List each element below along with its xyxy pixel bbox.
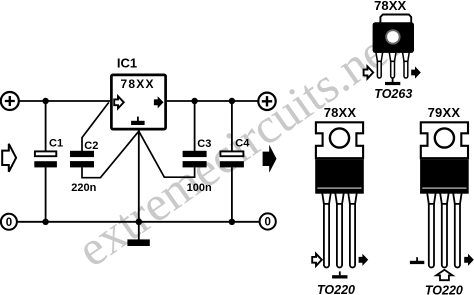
wire C3 top branch	[194, 101, 196, 151]
op-amp/regulator IC1 box	[111, 56, 165, 130]
wire C3 bottom to IC ground	[139, 131, 195, 177]
wire top rail (input side)	[19, 100, 110, 102]
TO263 leg 3	[403, 52, 410, 78]
TO220-78XX input pin arrow (hollow)	[312, 254, 322, 266]
wire bottom rail	[17, 221, 260, 223]
svg-text:78XX: 78XX	[374, 0, 406, 13]
TO263 leg 1	[376, 52, 383, 78]
svg-text:0: 0	[264, 217, 270, 229]
svg-text:0: 0	[6, 217, 12, 229]
TO263 ground pin symbol	[385, 78, 400, 85]
IC1 input pin arrow (hollow)	[114, 96, 124, 108]
wire top rail (output side)	[167, 100, 258, 102]
TO220-78XX leg 3	[348, 192, 357, 268]
svg-text:C1: C1	[49, 138, 63, 150]
capacitor C4	[220, 138, 250, 168]
TO220-78XX body groove line	[317, 187, 361, 189]
wire C4 branch	[231, 101, 233, 222]
wire IC ground down to rail and earth	[138, 130, 140, 240]
TO220-79XX leg 1	[427, 192, 436, 268]
svg-text:79XX: 79XX	[428, 105, 461, 120]
TO220-79XX input pin arrow (hollow, up)	[436, 270, 452, 280]
svg-text:C3: C3	[197, 138, 211, 150]
node C1 bottom junction	[42, 219, 48, 225]
TO220-78XX output pin arrow (solid)	[359, 254, 369, 266]
input arrow	[2, 144, 16, 172]
capacitor C2	[70, 140, 98, 194]
node C4 top junction	[229, 98, 235, 104]
TO220-79XX leg 3	[453, 192, 462, 268]
svg-text:78XX: 78XX	[324, 105, 357, 120]
TO263 input pin arrow (hollow)	[364, 66, 374, 78]
svg-text:TO220: TO220	[425, 284, 463, 295]
wire C1 top branch	[45, 101, 47, 151]
wire C1 bottom branch	[45, 167, 47, 221]
TO263 mounting hole ring	[385, 29, 400, 44]
terminal 0 (input, left)	[1, 214, 17, 230]
TO220-78XX leg 1	[322, 192, 331, 268]
TO220-78XX ground pin symbol	[332, 271, 347, 278]
TO263 output pin arrow (solid)	[411, 66, 421, 78]
TO220-78XX tab with notches	[316, 122, 363, 158]
terminal 0 (output, right)	[260, 213, 276, 229]
svg-text:C2: C2	[84, 140, 98, 152]
svg-text:TO220: TO220	[317, 283, 355, 295]
node C1 top junction	[42, 98, 48, 104]
capacitor C3	[183, 138, 212, 194]
TO220-78XX leg 2	[335, 192, 344, 268]
wire C2 bottom to IC ground	[82, 131, 139, 178]
TO263 tab	[380, 15, 411, 24]
node C4 bottom junction	[229, 219, 235, 225]
node C3 top junction	[191, 98, 197, 104]
TO220-79XX output pin arrow (solid)	[464, 254, 474, 266]
node ground rail junction	[136, 219, 143, 226]
ground symbol	[127, 239, 149, 246]
TO220-79XX leg 2	[440, 192, 449, 268]
TO220-78XX mounting hole	[330, 128, 349, 147]
IC1 output pin arrow (solid)	[154, 96, 164, 108]
TO220-79XX body	[420, 159, 469, 194]
TO263 body	[373, 22, 414, 53]
TO220-79XX body groove line	[422, 187, 466, 189]
svg-text:78XX: 78XX	[121, 77, 155, 91]
capacitor C1	[34, 138, 63, 168]
IC1 ground pin tab	[131, 117, 145, 125]
TO263 leg 2	[389, 52, 396, 78]
terminal + (output, right)	[258, 93, 275, 110]
terminal + (input, left)	[1, 92, 19, 110]
svg-text:C4: C4	[235, 138, 250, 150]
svg-text:IC1: IC1	[117, 56, 137, 71]
TO220-79XX ground pin symbol (left)	[410, 257, 424, 264]
output arrow	[263, 145, 277, 173]
TO220-78XX body	[315, 159, 364, 194]
TO220-79XX mounting hole	[435, 128, 454, 147]
wire C2 top diagonal from IC input	[82, 102, 109, 151]
svg-text:220n: 220n	[71, 182, 96, 194]
svg-text:100n: 100n	[187, 182, 212, 194]
TO220-79XX tab with notches	[421, 122, 468, 158]
svg-text:TO263: TO263	[374, 87, 412, 101]
